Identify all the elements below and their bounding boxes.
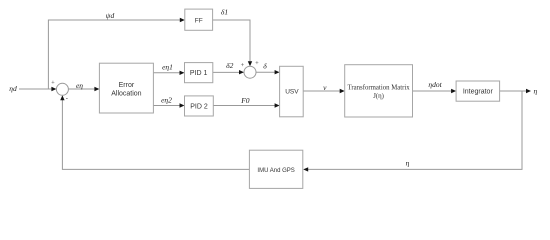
svg-text:ψd: ψd xyxy=(106,11,115,20)
svg-text:IMU And GPS: IMU And GPS xyxy=(257,168,294,174)
svg-text:Allocation: Allocation xyxy=(111,91,141,98)
svg-text:Integrator: Integrator xyxy=(463,88,494,95)
svg-text:J(η): J(η) xyxy=(373,93,384,100)
svg-text:PID 1: PID 1 xyxy=(190,70,208,77)
svg-text:δ: δ xyxy=(263,62,267,71)
svg-text:FF: FF xyxy=(195,17,203,24)
svg-text:η: η xyxy=(406,159,410,168)
svg-text:eη: eη xyxy=(76,81,83,90)
svg-text:F0: F0 xyxy=(240,96,250,105)
svg-text:eη1: eη1 xyxy=(162,63,173,72)
svg-text:δ1: δ1 xyxy=(221,8,228,17)
svg-text:δ2: δ2 xyxy=(226,61,233,70)
svg-text:Error: Error xyxy=(119,82,135,89)
svg-text:η: η xyxy=(534,86,538,95)
svg-text:-: - xyxy=(66,96,68,103)
svg-text:PID 2: PID 2 xyxy=(190,103,208,110)
svg-text:Transformation Matrix: Transformation Matrix xyxy=(347,85,410,92)
svg-text:USV: USV xyxy=(285,88,299,95)
svg-text:v: v xyxy=(323,83,327,92)
svg-text:+: + xyxy=(51,80,55,87)
svg-text:+: + xyxy=(255,60,259,67)
svg-text:ηd: ηd xyxy=(9,84,17,93)
svg-text:+: + xyxy=(241,62,245,69)
svg-text:ηdot: ηdot xyxy=(428,80,442,89)
svg-text:eη2: eη2 xyxy=(161,96,172,105)
